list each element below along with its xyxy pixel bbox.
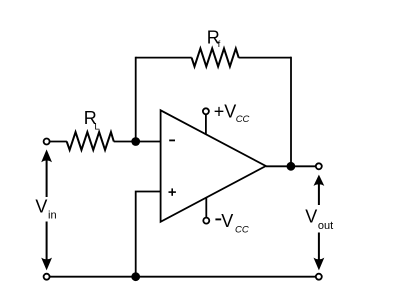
wire -Vcc stub: [205, 198, 207, 218]
label -Vcc: [215, 218, 221, 220]
resistor Rf: [192, 49, 239, 67]
Vout arrow (double-headed): [314, 175, 325, 271]
terminal bottom-right: [316, 274, 322, 280]
wire feedback vertical left: [135, 57, 137, 142]
wire bottom rail: [50, 276, 316, 278]
op-amp minus sign: [169, 139, 175, 141]
svg-text:Rf: Rf: [207, 27, 221, 49]
node junction inverting input: [131, 137, 140, 146]
op-amp plus sign: [169, 188, 176, 195]
Vin arrow (double-headed): [41, 149, 52, 270]
wire top feedback rail left segment: [136, 57, 192, 59]
op-amp U1: [161, 110, 266, 222]
wire plus input: [136, 192, 161, 277]
wire feedback vertical right: [290, 57, 292, 167]
terminal output: [316, 163, 322, 169]
node junction bottom rail: [131, 272, 140, 281]
terminal bottom-left: [44, 274, 50, 280]
wire output: [266, 165, 316, 167]
terminal input top-left: [44, 139, 50, 145]
wire input to R_L: [50, 141, 67, 143]
wire top feedback rail right segment: [239, 57, 291, 59]
terminal +Vcc: [203, 108, 209, 114]
wire +Vcc stub: [205, 114, 207, 134]
node junction output: [287, 162, 296, 171]
wire R_L to inverting input: [114, 141, 161, 143]
resistor RL: [67, 132, 114, 150]
terminal -Vcc: [203, 218, 209, 224]
